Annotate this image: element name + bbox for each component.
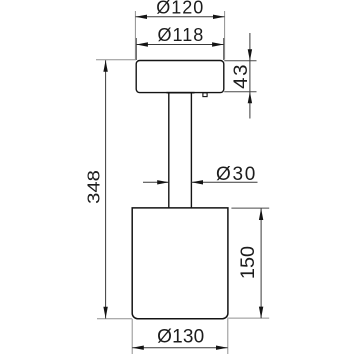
dim Ø118 extension line right [223, 38, 225, 60]
dim 150 extension line top [231, 207, 269, 209]
dim 348 arrow bottom [103, 307, 107, 319]
dim 348 extension line bottom [97, 318, 132, 320]
svg-text:Ø30: Ø30 [216, 164, 257, 185]
dim 150 arrow top [259, 208, 263, 220]
svg-text:150: 150 [238, 246, 259, 279]
dim Ø30 arrow right [191, 180, 203, 184]
dim Ø120 arrow left [135, 15, 147, 19]
svg-text:Ø130: Ø130 [157, 326, 204, 347]
dim Ø130 arrow right [216, 346, 228, 350]
dim 43 extension line bottom [224, 91, 256, 93]
dim 150 dimension line [260, 208, 262, 318]
dim Ø30 label [216, 164, 257, 185]
svg-text:Ø120: Ø120 [156, 0, 204, 18]
dim Ø30 arrow left [157, 180, 169, 184]
dim 43 extension line top [224, 60, 256, 62]
svg-text:Ø118: Ø118 [158, 25, 205, 45]
lamp body outline (base) [132, 208, 228, 319]
dim 43 arrow top [248, 49, 252, 61]
dim Ø30 dimension line left [143, 181, 168, 183]
dim Ø130 extension line right [227, 319, 229, 354]
dim 348 label [85, 170, 105, 204]
dim Ø130 label [157, 326, 204, 347]
dim 150 arrow bottom [259, 307, 263, 319]
switch button on head underside [203, 93, 207, 97]
dim Ø120 dimension line [135, 16, 224, 18]
svg-text:348: 348 [85, 170, 105, 204]
dim Ø120 arrow right [213, 15, 225, 19]
dim Ø120 extension line left [134, 11, 136, 60]
dim 43 dimension line [249, 33, 251, 119]
dim Ø30 dimension line right [191, 181, 257, 183]
dim Ø118 dimension line [136, 44, 223, 46]
dim 348 extension line top [96, 59, 136, 61]
svg-text:43: 43 [231, 63, 252, 89]
dim 43 label [231, 63, 252, 89]
dim Ø118 label [158, 25, 205, 45]
dim 43 arrow bottom [248, 92, 252, 104]
dim Ø130 extension line left [131, 319, 133, 354]
stem left line [168, 93, 170, 208]
dim Ø118 arrow right [212, 42, 224, 46]
dim 150 label [238, 246, 259, 279]
stem right line [190, 93, 192, 208]
dim Ø130 dimension line [132, 347, 227, 349]
dim 348 arrow top [103, 60, 107, 72]
stem top joint line [167, 92, 195, 94]
dim Ø118 extension line left [135, 38, 137, 60]
dim Ø118 arrow left [136, 42, 148, 46]
dim Ø120 extension line right [224, 11, 226, 60]
lamp head outline (top cap) [136, 61, 224, 93]
dim 150 extension line bottom [227, 317, 269, 319]
dim Ø130 arrow left [132, 346, 144, 350]
dim Ø120 label [156, 0, 204, 18]
dim 348 dimension line [105, 60, 107, 318]
